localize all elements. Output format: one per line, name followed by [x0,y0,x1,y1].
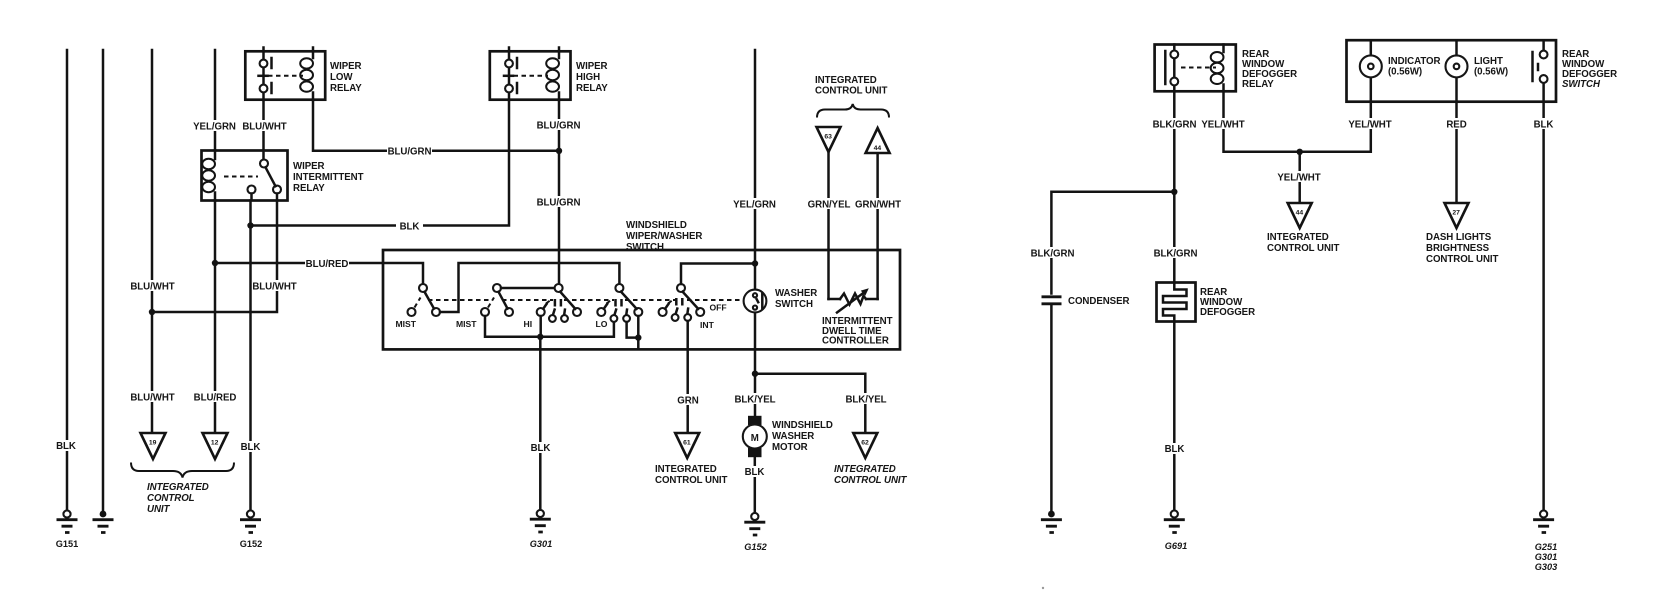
connector 61 triangle [675,433,699,458]
node junction YEL/WHT [1297,149,1303,155]
svg-text:BLU/WHT: BLU/WHT [252,282,296,293]
svg-text:(0.56W): (0.56W) [1474,67,1508,78]
svg-text:RED: RED [1446,120,1466,131]
wire BLU/WHT from intermittent relay down-left [153,194,277,313]
svg-text:BLU/GRN: BLU/GRN [537,198,581,209]
svg-text:BRIGHTNESS: BRIGHTNESS [1426,243,1490,254]
wire BLU/GRN high relay coil down to switch [558,100,561,284]
label YEL/WHT (relay) [1200,118,1246,131]
svg-text:G152: G152 [744,542,767,552]
label GRN/YEL [807,198,851,211]
svg-text:62: 62 [861,440,869,447]
wire S5 common up to washer feed [681,264,755,285]
svg-text:BLU/WHT: BLU/WHT [130,393,174,404]
svg-text:BLU/GRN: BLU/GRN [388,147,432,158]
wire BLK defogger switch to grounds [1542,102,1545,510]
svg-text:G303: G303 [1535,562,1557,572]
relay U1: wiper low relay [245,48,362,101]
wire BLK to G151 [66,50,69,510]
svg-text:DASH LIGHTS: DASH LIGHTS [1426,232,1492,243]
svg-text:LO: LO [596,319,608,329]
node junction BLU/RED [212,260,218,266]
wire YEL/WHT relay coil to indicator [1224,91,1371,152]
svg-text:YEL/GRN: YEL/GRN [193,122,236,133]
svg-text:CONDENSER: CONDENSER [1068,296,1130,307]
svg-text:CONTROL UNIT: CONTROL UNIT [1426,254,1499,265]
svg-text:G301: G301 [1535,552,1557,562]
label BLK/GRN [1152,118,1197,131]
svg-text:YEL/WHT: YEL/WHT [1348,120,1391,131]
wire BLU/GRN low relay coil to high relay coil junction [313,100,559,151]
wire BLK from intermittent relay to G152 [251,194,252,512]
wire BLK horizontal to high relay [251,100,510,226]
svg-text:UNIT: UNIT [147,504,171,515]
svg-text:LIGHT: LIGHT [1474,56,1503,67]
svg-text:CONTROL UNIT: CONTROL UNIT [1267,243,1340,254]
svg-text:WASHER: WASHER [775,288,817,299]
label BLK [741,466,768,478]
label RED [1443,118,1470,131]
rear window defogger element [1157,283,1256,322]
switch S6 rear window defogger switch [1533,40,1618,101]
washer switch [744,288,818,312]
label BLK [396,220,423,233]
label GRN/WHT [855,198,901,211]
svg-text:BLU/WHT: BLU/WHT [130,282,174,293]
svg-text:MOTOR: MOTOR [772,442,808,453]
svg-text:BLU/RED: BLU/RED [194,393,237,404]
label BLK [527,442,554,454]
svg-text:CONTROL UNIT: CONTROL UNIT [655,475,728,486]
wire BLU/WHT to connector 19 [151,50,154,432]
switch S3 hi [524,284,582,329]
wire S2 common to S3 common [501,287,555,290]
svg-text:HIGH: HIGH [576,72,600,83]
connector 12 triangle [203,433,228,459]
label BLU/RED [193,391,237,404]
svg-text:M: M [751,433,759,444]
ground G301 [530,510,552,549]
node junction bottom rail [537,334,543,340]
capacitor condenser [1042,296,1130,307]
connector 44 triangle (ICU) [1288,203,1312,228]
scan speck [1042,587,1044,589]
svg-text:GRN: GRN [677,396,698,407]
svg-text:BLK/YEL: BLK/YEL [845,395,886,406]
label BLU/WHT [252,280,297,293]
node junction YEL/GRN [752,260,758,266]
svg-text:CONTROL UNIT: CONTROL UNIT [834,475,908,486]
svg-text:BLK/GRN: BLK/GRN [1154,249,1198,260]
washer motor M [743,416,833,457]
svg-text:INTERMITTENT: INTERMITTENT [293,172,364,183]
svg-text:YEL/WHT: YEL/WHT [1201,120,1244,131]
svg-text:SWITCH: SWITCH [1562,79,1601,90]
svg-text:BLK/GRN: BLK/GRN [1031,249,1075,260]
svg-text:SWITCH: SWITCH [626,242,664,253]
svg-text:61: 61 [683,440,691,447]
label YEL/GRN [192,120,237,133]
ganged switch dashed linkage [428,299,492,301]
svg-text:OFF: OFF [710,303,727,313]
label BLU/RED [305,258,349,271]
connector 63 triangle (down) [817,127,841,152]
label BLU/WHT lower [130,391,175,404]
label GRN [675,394,701,407]
svg-text:INTEGRATED: INTEGRATED [815,75,877,86]
ground (condenser) [1041,511,1062,533]
wire BLK/YEL branch to connector 62 [755,374,865,432]
wire BLK motor to G152 [754,457,757,513]
svg-text:INDICATOR: INDICATOR [1388,56,1441,67]
svg-text:G691: G691 [1165,541,1187,551]
node junction BLU/WHT [149,309,155,315]
svg-text:BLK: BLK [1165,444,1185,455]
relay U3: wiper intermittent relay [202,151,364,201]
label BLK (defogger) [1161,443,1188,455]
svg-text:BLK/GRN: BLK/GRN [1153,120,1197,131]
label BLK (switch) [1530,118,1557,131]
svg-text:BLK: BLK [1534,120,1554,131]
svg-text:YEL/WHT: YEL/WHT [1277,173,1320,184]
svg-text:GRN/YEL: GRN/YEL [808,200,851,211]
ground G251 G301 G303 [1533,510,1557,572]
svg-text:27: 27 [1452,210,1460,217]
label BLK/YEL [844,393,888,406]
node junction BLU/GRN [556,148,562,154]
svg-text:WIPER/WASHER: WIPER/WASHER [626,231,702,242]
ground (unlabeled) [93,511,114,533]
svg-text:G301: G301 [530,539,552,549]
wire BLU/WHT low relay to intermittent relay [262,100,265,160]
svg-text:BLK: BLK [745,467,765,478]
svg-text:WIPER: WIPER [330,61,362,72]
svg-text:SWITCH: SWITCH [775,299,813,310]
svg-text:RELAY: RELAY [330,83,362,94]
svg-text:63: 63 [824,134,832,141]
svg-text:G251: G251 [1535,542,1557,552]
switch S1 mist [396,284,441,329]
brace over connectors 63/44 [817,104,889,118]
svg-text:(0.56W): (0.56W) [1388,67,1422,78]
svg-text:WIPER: WIPER [293,161,325,172]
windshield wiper/washer switch box [383,250,900,349]
indicator/light/switch box [1347,40,1557,101]
node junction BLK/GRN [1171,189,1177,195]
svg-text:RELAY: RELAY [1242,79,1274,90]
label YEL/WHT (indicator) [1347,118,1393,131]
svg-text:CONTROL: CONTROL [147,493,195,504]
svg-text:CONTROLLER: CONTROLLER [822,336,889,347]
node junction BLK/YEL [752,371,758,377]
lamp light [1446,40,1509,101]
connector 19 triangle [141,433,166,459]
svg-text:MIST: MIST [456,319,477,329]
wire YEL/GRN from top [754,50,757,290]
brace integrated control unit [131,463,234,478]
svg-text:BLK: BLK [531,443,551,454]
lamp indicator [1360,40,1441,101]
label BLU/GRN lower [536,196,581,209]
svg-text:MIST: MIST [396,319,417,329]
ground G691 [1164,510,1187,551]
ground G151 [56,510,78,549]
svg-text:BLK: BLK [56,441,76,452]
svg-text:HI: HI [524,319,533,329]
label BLK [237,441,264,453]
svg-text:BLK: BLK [241,442,261,453]
svg-text:44: 44 [874,145,882,152]
wire BLU/RED from coil to connector 12 [214,201,217,433]
svg-text:RELAY: RELAY [293,183,325,194]
svg-text:WINDSHIELD: WINDSHIELD [772,420,833,431]
label BLU/WHT [242,120,287,133]
ground G152 [240,510,262,549]
svg-text:INT: INT [700,320,715,330]
connector 62 triangle [853,433,877,458]
svg-text:G152: G152 [240,539,262,549]
connector 44 triangle (up) [866,128,890,153]
switch S5 off/int [659,284,727,330]
svg-text:DEFOGGER: DEFOGGER [1200,307,1255,318]
svg-text:BLU/GRN: BLU/GRN [537,121,581,132]
wire BLK from switch to G301 [539,337,542,510]
label BLK [53,440,80,452]
node junction S4 [635,334,641,340]
svg-text:GRN/WHT: GRN/WHT [855,200,901,211]
svg-text:INTEGRATED: INTEGRATED [147,482,209,493]
switch S4 lo [596,284,643,329]
svg-text:19: 19 [149,440,157,447]
intermittent dwell time controller [822,153,893,347]
connector 27 triangle [1445,203,1469,228]
wire S4 contacts to stub [627,316,639,349]
wire branch to condenser [1051,192,1174,294]
wire BLK/GRN relay to ground [1173,91,1176,282]
wire to second ground [102,50,105,511]
svg-text:YEL/GRN: YEL/GRN [733,200,776,211]
wire BLK/YEL washer switch to motor [754,313,757,416]
wire S3 hi contact down to BLK [539,316,542,337]
label YEL/WHT [1276,171,1322,184]
svg-text:INTEGRATED: INTEGRATED [1267,232,1329,243]
svg-text:INTEGRATED: INTEGRATED [655,464,717,475]
label BLU/WHT [130,280,175,293]
svg-text:BLK/YEL: BLK/YEL [734,395,775,406]
wire GRN from S5 to connector 61 [686,321,689,432]
label YEL/GRN [732,198,777,211]
ground G152 (motor) [744,513,767,552]
wire BLU/RED junction to switch box [215,263,423,284]
label BLK/YEL [733,393,777,406]
svg-text:44: 44 [1296,210,1304,217]
wire condenser to ground [1050,304,1053,511]
svg-text:RELAY: RELAY [576,83,608,94]
svg-text:WASHER: WASHER [772,431,814,442]
svg-text:LOW: LOW [330,72,353,83]
switch S2 mist [456,284,513,329]
label BLU/GRN [387,145,432,158]
label BLK/GRN (defogger branch) [1153,247,1198,260]
label BLK/GRN (condenser branch) [1030,247,1075,260]
svg-text:CONTROL UNIT: CONTROL UNIT [815,86,888,97]
svg-text:INTEGRATED: INTEGRATED [834,464,896,475]
svg-text:BLU/WHT: BLU/WHT [242,122,286,133]
relay U4: rear window defogger relay [1155,45,1297,92]
svg-text:WINDSHIELD: WINDSHIELD [626,220,687,231]
svg-text:BLK: BLK [400,222,420,233]
svg-text:12: 12 [211,440,219,447]
wire YEL/GRN to intermittent relay coil [214,50,217,150]
label BLU/GRN upper [536,119,581,132]
relay U2: wiper high relay [490,48,608,101]
wire YEL/WHT to connector [1298,152,1301,202]
wire S2 contact to bottom rail [485,316,614,337]
svg-text:WIPER: WIPER [576,61,608,72]
wire S1 to top internal rail [440,263,619,312]
svg-text:BLU/RED: BLU/RED [306,259,349,270]
node junction BLK [247,222,253,228]
wire RED light to connector 27 [1455,102,1458,202]
svg-text:G151: G151 [56,539,78,549]
